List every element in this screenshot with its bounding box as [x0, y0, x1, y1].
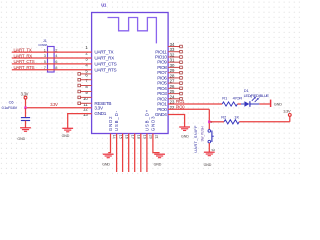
svg-text:19: 19 — [143, 135, 147, 139]
svg-text:GND: GND — [17, 137, 25, 141]
svg-text:UART_SNIFF: UART_SNIFF — [193, 125, 198, 153]
svg-text:5: 5 — [44, 59, 46, 64]
svg-text:1: 1 — [44, 47, 46, 52]
svg-text:15: 15 — [118, 135, 122, 139]
svg-text:2: 2 — [55, 47, 57, 52]
svg-text:PIO0: PIO0 — [176, 104, 185, 109]
svg-text:3.3V: 3.3V — [283, 109, 291, 114]
svg-text:R2: R2 — [221, 115, 226, 120]
svg-text:UART_TX: UART_TX — [94, 50, 113, 55]
svg-text:PIO9: PIO9 — [157, 60, 167, 65]
svg-text:USB_D+: USB_D+ — [145, 109, 150, 131]
svg-text:GND: GND — [154, 163, 162, 167]
svg-text:GND: GND — [62, 134, 70, 138]
svg-text:CON8A: CON8A — [38, 43, 47, 47]
svg-text:1K: 1K — [234, 115, 239, 120]
svg-text:20: 20 — [149, 135, 153, 139]
svg-text:7: 7 — [44, 65, 46, 70]
svg-text:UART_RTS: UART_RTS — [14, 65, 35, 70]
svg-text:UART_RX: UART_RX — [94, 56, 114, 61]
svg-text:USB_D-: USB_D- — [114, 110, 119, 131]
svg-text:0.1uF/16V: 0.1uF/16V — [2, 106, 18, 110]
svg-text:PIO6: PIO6 — [157, 75, 167, 80]
svg-text:47OR: 47OR — [233, 95, 243, 100]
svg-text:8: 8 — [55, 65, 57, 70]
svg-text:GND: GND — [181, 134, 189, 138]
svg-text:3: 3 — [44, 53, 46, 58]
svg-text:UART_CTS: UART_CTS — [14, 59, 35, 64]
svg-text:GND4: GND4 — [155, 112, 167, 117]
svg-text:GND3: GND3 — [151, 116, 156, 132]
svg-text:16: 16 — [124, 135, 128, 139]
svg-text:10: 10 — [83, 96, 88, 101]
svg-text:14: 14 — [112, 135, 116, 139]
svg-text:PIO3: PIO3 — [157, 91, 167, 96]
svg-text:GND: GND — [102, 163, 110, 167]
svg-text:21: 21 — [155, 135, 159, 139]
svg-text:GND2: GND2 — [108, 116, 113, 132]
svg-text:S2: S2 — [211, 148, 215, 152]
svg-text:D1: D1 — [244, 88, 249, 93]
svg-text:18: 18 — [136, 135, 140, 139]
svg-text:LED(RED)BLUE: LED(RED)BLUE — [244, 93, 270, 98]
svg-text:17: 17 — [130, 135, 134, 139]
svg-text:GND: GND — [204, 163, 212, 167]
svg-text:3.3V: 3.3V — [94, 106, 104, 111]
svg-text:GND: GND — [274, 102, 282, 106]
svg-text:3.3V: 3.3V — [50, 102, 58, 107]
svg-text:UART_CTS: UART_CTS — [94, 62, 116, 67]
svg-text:PIO1: PIO1 — [176, 99, 185, 104]
svg-text:UART_TX: UART_TX — [14, 47, 32, 52]
svg-text:GND1: GND1 — [94, 111, 106, 116]
svg-text:SW_PUSH: SW_PUSH — [200, 126, 204, 142]
svg-text:13: 13 — [83, 112, 88, 117]
svg-text:UART_RTS: UART_RTS — [94, 67, 116, 72]
svg-text:C6: C6 — [9, 99, 14, 104]
svg-text:6: 6 — [55, 59, 57, 64]
svg-text:UART_RX: UART_RX — [14, 53, 33, 58]
svg-text:3.3V: 3.3V — [21, 91, 29, 96]
svg-text:R1: R1 — [222, 95, 227, 100]
